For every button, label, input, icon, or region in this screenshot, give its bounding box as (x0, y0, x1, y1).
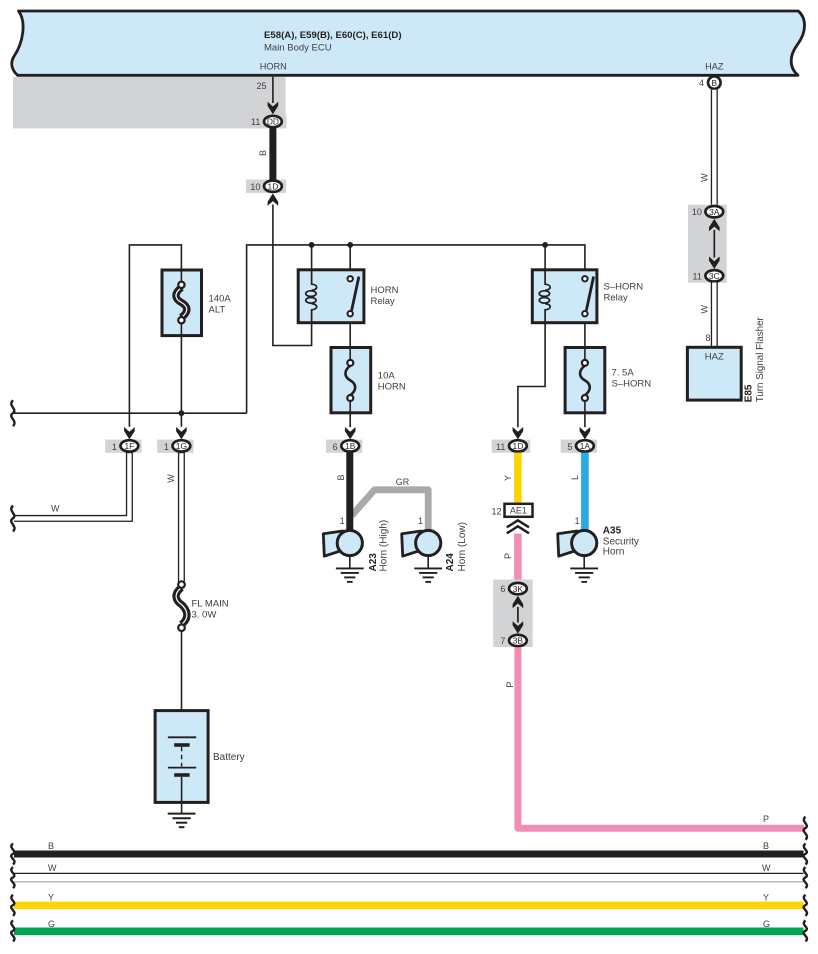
svg-text:L: L (570, 475, 580, 480)
svg-text:1D: 1D (513, 441, 524, 451)
node: rail to HORN relay switch (347, 242, 353, 277)
bus wire W (white, outlined) (14, 863, 804, 882)
break symbols bus B (11, 844, 807, 865)
wire Y (yellow) 1D to AE1 (503, 453, 518, 505)
svg-text:E58(A), E59(B), E60(C), E61(D): E58(A), E59(B), E60(C), E61(D) (264, 30, 402, 41)
svg-text:A24: A24 (445, 553, 456, 572)
pin 25 HORN output wire (256, 77, 272, 103)
wire P (pink) 3B down to bus corner (505, 647, 804, 828)
fuse 7.5A S-HORN (565, 348, 651, 413)
battery (155, 711, 245, 814)
svg-text:3A: 3A (709, 207, 720, 217)
svg-text:S–HORN: S–HORN (604, 282, 644, 293)
W wire 1G down to FL MAIN (166, 453, 181, 582)
ground (battery) (168, 814, 196, 828)
connector 1A (pin 5) (561, 440, 597, 453)
node: junction at 1G column (179, 410, 185, 416)
svg-text:Y: Y (48, 893, 54, 903)
horn A23 Horn (High) (323, 520, 389, 572)
arrow into 1B (345, 427, 356, 439)
node: rail to HORN relay coil (309, 242, 315, 283)
junction block 3A/3C gray area (688, 205, 727, 283)
connector 1D (pin 10) (246, 180, 286, 193)
svg-text:A35: A35 (603, 526, 622, 537)
svg-text:S–HORN: S–HORN (612, 379, 652, 390)
svg-text:Main Body ECU: Main Body ECU (264, 42, 332, 53)
connector 1G (pin 1) (157, 440, 193, 453)
svg-text:HORN: HORN (260, 62, 287, 72)
wire S-HORN coil to connector 1D(11) (518, 323, 545, 428)
svg-text:Relay: Relay (604, 293, 629, 304)
svg-text:W: W (48, 863, 57, 873)
svg-text:1: 1 (112, 442, 117, 452)
svg-text:10A: 10A (378, 371, 396, 382)
svg-text:1: 1 (340, 516, 345, 526)
wire L (blue) 1A to horn A35 (570, 453, 585, 530)
flasher E85 HAZ box (687, 316, 766, 402)
pin 4 terminal B circle (699, 76, 721, 89)
svg-text:11: 11 (251, 117, 260, 127)
connector 1B (pin 6) (326, 440, 362, 453)
svg-text:25: 25 (256, 81, 266, 91)
wire FL MAIN to battery (181, 631, 183, 737)
arrow into 1D(11) (513, 427, 524, 439)
svg-text:140A: 140A (209, 294, 232, 305)
connector 3C (pin 11) (693, 270, 724, 281)
arrow into DD (268, 102, 279, 114)
svg-text:10: 10 (250, 182, 260, 192)
svg-text:P: P (505, 682, 515, 688)
svg-text:7: 7 (500, 636, 505, 646)
wire ALT to 1G (180, 320, 182, 426)
bus wire B (black) (14, 841, 804, 854)
break symbol left (y=413) (11, 400, 14, 426)
svg-text:1G: 1G (176, 441, 187, 451)
svg-text:1F: 1F (125, 441, 135, 451)
svg-text:B: B (336, 474, 346, 480)
svg-text:4: 4 (699, 78, 704, 88)
svg-text:Horn (High): Horn (High) (378, 520, 389, 572)
fusible link 140A ALT (162, 270, 231, 336)
svg-text:W: W (700, 173, 710, 182)
connector 1F (pin 1) (105, 440, 141, 453)
svg-text:HORN: HORN (378, 382, 406, 393)
svg-text:3B: 3B (513, 636, 524, 646)
wire P (pink) chevron to 3K (503, 534, 518, 583)
wire off-page feed (y=413) (14, 412, 247, 414)
break symbol right (P wire) (804, 817, 807, 840)
svg-text:B: B (48, 841, 54, 851)
svg-text:1D: 1D (268, 181, 279, 191)
power rail wire (247, 245, 585, 413)
svg-text:Turn Signal Flasher: Turn Signal Flasher (755, 316, 766, 402)
svg-text:1: 1 (575, 516, 580, 526)
svg-text:P: P (503, 553, 513, 559)
svg-text:AE1: AE1 (510, 506, 527, 516)
ground (A35) (570, 557, 598, 582)
svg-text:Relay: Relay (371, 296, 396, 307)
W wire from 1F off-page left (14, 453, 129, 519)
svg-text:W: W (762, 863, 771, 873)
svg-text:6: 6 (500, 584, 505, 594)
svg-text:Y: Y (503, 475, 513, 481)
harness shading area (gray) top-left (13, 77, 286, 128)
ECU U-E58/E59/E60/E61 Main Body ECU band (12, 11, 805, 75)
relay HORN Relay (298, 270, 398, 323)
svg-text:Horn (Low): Horn (Low) (457, 522, 468, 571)
svg-text:ALT: ALT (209, 305, 226, 316)
connector AE1 (pin 12) (491, 504, 532, 517)
svg-text:HAZ: HAZ (705, 351, 724, 362)
node: rail to S-HORN relay coil (542, 242, 548, 283)
svg-text:Battery: Battery (213, 752, 245, 763)
svg-text:10: 10 (692, 207, 702, 217)
wire W (white) B circle to 3A (700, 90, 715, 206)
svg-text:GR: GR (396, 477, 410, 487)
wire 7.5A fuse to 1A (584, 413, 586, 427)
wire B (black) DD to 1D (258, 128, 277, 179)
svg-text:Y: Y (763, 893, 769, 903)
pin 1 label A23 (340, 516, 345, 526)
svg-text:3K: 3K (513, 584, 524, 594)
bridge wire ALT to 1F (129, 245, 181, 427)
svg-text:6: 6 (333, 442, 338, 452)
relay S-HORN Relay (532, 270, 643, 323)
svg-text:11: 11 (496, 442, 505, 452)
svg-text:11: 11 (693, 271, 702, 281)
svg-text:P: P (763, 814, 769, 824)
wire W (white) 3C to HAZ box (700, 283, 715, 348)
fusible link FL MAIN 3.0W (176, 581, 229, 631)
wire GR (gray) A23 to A24 (352, 477, 429, 529)
svg-text:8: 8 (705, 333, 710, 343)
svg-text:1A: 1A (580, 441, 591, 451)
break symbol left (W wire) (11, 506, 14, 532)
svg-text:G: G (763, 919, 770, 929)
arrow up into 1D (268, 193, 279, 205)
arrow into 1G (176, 427, 187, 439)
svg-text:W: W (51, 504, 60, 514)
fuse 10A HORN (331, 348, 406, 413)
arrow into 1A (580, 427, 591, 439)
svg-text:B: B (258, 150, 268, 156)
pin 1 label A35 (575, 516, 580, 526)
svg-text:G: G (48, 919, 55, 929)
svg-text:7. 5A: 7. 5A (612, 368, 635, 379)
splice chevrons below AE1 (507, 520, 529, 533)
connector DD (pin 11) (247, 115, 287, 128)
horn A35 Security Horn (558, 526, 639, 558)
svg-text:1: 1 (418, 516, 423, 526)
break symbols bus Y (11, 895, 807, 916)
connector 1D (pin 11) (492, 440, 531, 453)
wire B (black) 1B to horn A23 (336, 453, 350, 532)
svg-text:5: 5 (567, 442, 572, 452)
wire relay switch to 10A fuse (349, 323, 351, 347)
arrow up into 3K and link to 3B arrow (513, 596, 524, 634)
svg-text:B: B (712, 78, 718, 88)
svg-text:FL MAIN: FL MAIN (192, 599, 229, 610)
svg-text:1: 1 (164, 442, 169, 452)
svg-text:3C: 3C (709, 271, 720, 281)
svg-text:W: W (700, 305, 710, 314)
svg-text:3. 0W: 3. 0W (192, 610, 217, 621)
ground (A23) (336, 557, 364, 582)
connector 3B (pin 7) (500, 635, 526, 646)
connector 3K (pin 6) (500, 583, 526, 594)
bus wire G (green) (14, 919, 804, 931)
svg-text:E85: E85 (744, 384, 755, 402)
svg-text:A23: A23 (368, 553, 379, 572)
svg-text:HAZ: HAZ (705, 62, 724, 72)
break symbols bus G (11, 920, 807, 941)
arrow up into 3A and link to 3C arrow (709, 219, 720, 269)
svg-text:DD: DD (267, 117, 279, 127)
svg-text:1B: 1B (345, 441, 356, 451)
arrow into 1F (124, 427, 135, 439)
svg-text:Horn: Horn (603, 547, 625, 558)
svg-text:W: W (166, 474, 176, 483)
svg-text:B: B (763, 841, 769, 851)
junction block 3K/3B gray area (493, 580, 533, 648)
bus wire Y (yellow) (14, 893, 804, 906)
wire from 1D to HORN relay coil (273, 205, 312, 346)
svg-text:HORN: HORN (371, 285, 399, 296)
svg-text:12: 12 (491, 507, 501, 517)
horn A24 Horn (Low) (402, 522, 468, 571)
wire relay switch to 7.5A fuse (584, 323, 586, 347)
pin 1 label A24 (418, 516, 423, 526)
wire 10A fuse to 1B (349, 413, 351, 427)
ground (A24) (414, 557, 442, 582)
connector 3A (pin 10) (692, 206, 723, 217)
break symbols bus W (11, 867, 807, 888)
